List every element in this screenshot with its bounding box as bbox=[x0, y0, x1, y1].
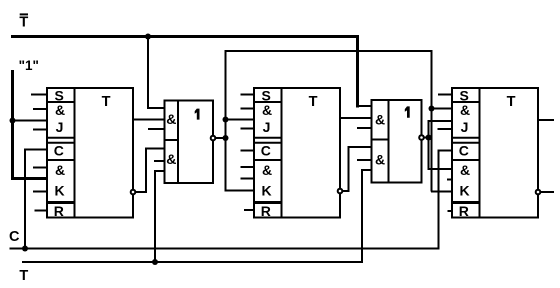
svg-text:&: & bbox=[166, 151, 176, 167]
svg-text:R: R bbox=[54, 203, 64, 219]
svg-text:C: C bbox=[459, 143, 469, 159]
svg-text:"1": "1" bbox=[19, 58, 39, 73]
svg-text:T: T bbox=[102, 94, 111, 110]
svg-text:&: & bbox=[55, 162, 65, 178]
svg-text:&: & bbox=[262, 102, 272, 118]
svg-text:&: & bbox=[262, 162, 272, 178]
svg-text:&: & bbox=[375, 152, 385, 168]
svg-text:C: C bbox=[54, 143, 64, 159]
svg-text:T: T bbox=[309, 94, 318, 110]
svg-text:T: T bbox=[19, 268, 28, 284]
svg-text:T: T bbox=[19, 15, 28, 31]
svg-text:&: & bbox=[460, 102, 470, 118]
svg-text:C: C bbox=[9, 229, 20, 245]
svg-text:&: & bbox=[375, 112, 385, 128]
svg-text:J: J bbox=[263, 119, 271, 135]
svg-text:C: C bbox=[261, 143, 271, 159]
svg-text:K: K bbox=[54, 183, 64, 199]
svg-text:R: R bbox=[261, 203, 271, 219]
svg-text:&: & bbox=[166, 111, 176, 127]
svg-text:T: T bbox=[507, 94, 516, 110]
svg-text:R: R bbox=[459, 203, 469, 219]
svg-text:J: J bbox=[461, 119, 469, 135]
svg-text:K: K bbox=[459, 183, 469, 199]
svg-text:&: & bbox=[460, 162, 470, 178]
svg-text:&: & bbox=[55, 102, 65, 118]
svg-text:J: J bbox=[56, 119, 64, 135]
svg-text:K: K bbox=[261, 183, 271, 199]
